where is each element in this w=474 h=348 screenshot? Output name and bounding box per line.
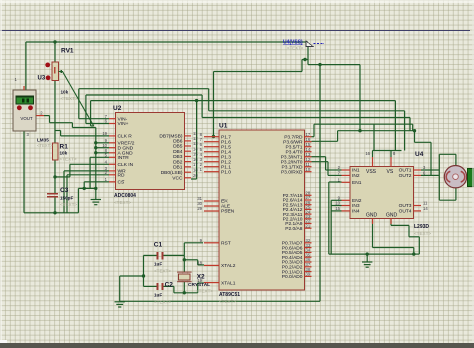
svg-text:RST: RST: [221, 241, 231, 247]
svg-text:LM35: LM35: [37, 137, 49, 142]
svg-text:15: 15: [335, 206, 340, 211]
svg-text:ADC0804: ADC0804: [114, 193, 136, 199]
svg-text:<TEXT>: <TEXT>: [154, 269, 171, 274]
svg-text:INTR: INTR: [118, 155, 130, 161]
svg-text:PSEN: PSEN: [221, 209, 235, 215]
svg-text:DB6: DB6: [173, 139, 183, 145]
svg-text:<TEXT>: <TEXT>: [287, 46, 304, 51]
svg-text:U3: U3: [38, 76, 46, 82]
svg-text:21: 21: [306, 223, 311, 228]
svg-text:150pF: 150pF: [60, 196, 73, 201]
svg-text:DB3: DB3: [173, 154, 183, 160]
svg-text:L293D: L293D: [414, 224, 429, 230]
svg-text:CLK IN: CLK IN: [118, 162, 134, 168]
svg-text:1: 1: [15, 77, 18, 82]
svg-text:<TEXT>: <TEXT>: [114, 200, 131, 205]
svg-text:U2: U2: [113, 105, 122, 112]
svg-text:VSS: VSS: [366, 169, 377, 175]
svg-text:X2: X2: [197, 274, 205, 281]
svg-text:17: 17: [193, 162, 198, 167]
svg-text:19: 19: [102, 131, 107, 136]
svg-text:IN4: IN4: [352, 209, 360, 215]
svg-text:18: 18: [197, 261, 202, 266]
svg-text:IN2: IN2: [352, 173, 360, 179]
svg-text:10k: 10k: [61, 90, 69, 95]
svg-text:C3: C3: [60, 187, 69, 194]
svg-text:CRYSTAL: CRYSTAL: [188, 282, 210, 288]
svg-text:8: 8: [393, 151, 396, 156]
svg-text:C2: C2: [165, 282, 174, 289]
svg-text:GND: GND: [386, 213, 398, 219]
svg-text:<TEXT>: <TEXT>: [61, 96, 78, 101]
svg-text:3: 3: [27, 132, 30, 137]
svg-text:OUT2: OUT2: [399, 173, 412, 179]
svg-text:P1.0: P1.0: [221, 169, 231, 175]
svg-text:OUT1: OUT1: [399, 168, 412, 174]
svg-text:CS: CS: [118, 180, 125, 186]
svg-text:2: 2: [40, 111, 43, 116]
svg-text:39: 39: [306, 272, 311, 277]
svg-text:18: 18: [193, 167, 198, 172]
svg-text:EN1: EN1: [352, 180, 362, 186]
svg-text:10: 10: [335, 201, 340, 206]
svg-text:20: 20: [193, 173, 198, 178]
svg-text:EN2: EN2: [352, 198, 362, 204]
svg-text:VOUT: VOUT: [20, 116, 33, 121]
svg-text:P2.0/A8: P2.0/A8: [285, 226, 303, 232]
svg-text:P3.0/RXD: P3.0/RXD: [281, 169, 303, 175]
svg-text:RD: RD: [118, 173, 125, 179]
svg-text:RV1: RV1: [61, 48, 74, 55]
svg-text:14: 14: [423, 206, 428, 211]
svg-text:29: 29: [197, 206, 202, 211]
svg-text:11: 11: [423, 201, 428, 206]
svg-text:IN1: IN1: [352, 168, 360, 174]
svg-text:DB4: DB4: [173, 149, 183, 155]
svg-text:<TEXT>: <TEXT>: [196, 289, 213, 294]
svg-text:GND: GND: [366, 213, 378, 219]
svg-text:U1: U1: [219, 123, 228, 130]
svg-text:<TEXT>: <TEXT>: [154, 300, 171, 305]
svg-text:D GND: D GND: [118, 145, 134, 151]
svg-text:1uF: 1uF: [154, 262, 162, 267]
svg-text:AT89C51: AT89C51: [219, 292, 240, 298]
svg-text:<TEXT>: <TEXT>: [37, 143, 53, 148]
svg-text:VIN+: VIN+: [118, 121, 129, 127]
svg-text:XTAL2: XTAL2: [221, 263, 236, 269]
svg-text:1: 1: [200, 167, 203, 172]
svg-text:OUT4: OUT4: [399, 209, 412, 215]
svg-text:DB0(LSB): DB0(LSB): [161, 170, 183, 176]
svg-text:<TEXT>: <TEXT>: [219, 299, 236, 304]
svg-text:DB5: DB5: [173, 144, 183, 150]
svg-text:DB2: DB2: [173, 159, 183, 165]
svg-text:1uF: 1uF: [154, 293, 162, 298]
svg-text:CLK R: CLK R: [118, 134, 133, 140]
svg-text:DB1: DB1: [173, 165, 183, 171]
svg-text:VS: VS: [387, 169, 394, 175]
svg-text:16: 16: [365, 151, 370, 156]
svg-text:XTAL1: XTAL1: [221, 280, 236, 286]
svg-text:<TEXT>: <TEXT>: [414, 231, 431, 236]
svg-text:OUT3: OUT3: [399, 203, 412, 209]
svg-text:VCC: VCC: [172, 176, 183, 182]
svg-text:<TEXT>: <TEXT>: [60, 157, 77, 162]
svg-text:C1: C1: [154, 242, 163, 249]
svg-text:10: 10: [306, 167, 311, 172]
svg-text:<TEXT>: <TEXT>: [60, 202, 77, 207]
svg-text:U4: U4: [415, 151, 424, 158]
svg-text:P0.0/AD0: P0.0/AD0: [282, 274, 303, 280]
svg-text:IN3: IN3: [352, 203, 360, 209]
svg-text:R1: R1: [60, 144, 69, 151]
svg-text:10k: 10k: [60, 151, 68, 156]
